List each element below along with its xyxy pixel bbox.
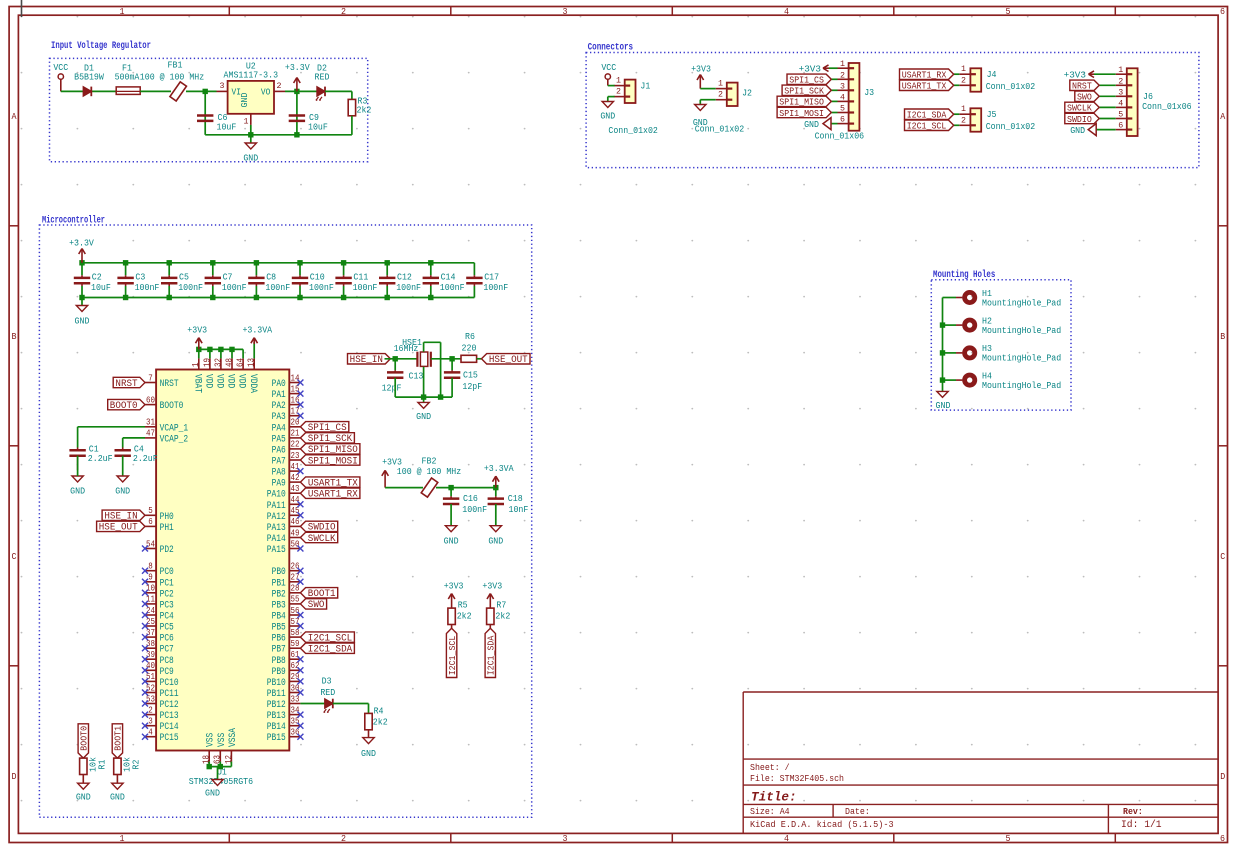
svg-text:J3: J3 xyxy=(864,87,874,98)
svg-text:7: 7 xyxy=(148,372,153,383)
svg-text:Connectors: Connectors xyxy=(588,42,634,53)
svg-text:PB9: PB9 xyxy=(272,667,286,678)
svg-text:13: 13 xyxy=(246,358,257,367)
svg-text:2: 2 xyxy=(616,87,621,97)
svg-text:56: 56 xyxy=(291,605,300,616)
svg-text:R7: R7 xyxy=(496,600,506,611)
svg-text:GND: GND xyxy=(804,119,819,130)
svg-text:R5: R5 xyxy=(458,600,468,611)
svg-text:PA9: PA9 xyxy=(272,479,286,490)
svg-text:BOOT0: BOOT0 xyxy=(160,401,184,412)
svg-text:PC7: PC7 xyxy=(160,645,174,656)
svg-text:B: B xyxy=(12,332,18,342)
svg-text:31: 31 xyxy=(146,417,155,428)
svg-text:SPI1_CS: SPI1_CS xyxy=(789,75,824,86)
svg-text:1: 1 xyxy=(120,7,125,17)
svg-text:C11: C11 xyxy=(353,271,368,282)
svg-text:PC8: PC8 xyxy=(160,656,174,667)
svg-text:5: 5 xyxy=(840,104,845,114)
svg-text:RED: RED xyxy=(315,72,330,83)
svg-text:3: 3 xyxy=(563,7,568,17)
svg-text:MountingHole_Pad: MountingHole_Pad xyxy=(982,325,1061,336)
svg-text:500mA: 500mA xyxy=(115,72,140,83)
svg-text:C: C xyxy=(1220,552,1226,562)
svg-text:PC13: PC13 xyxy=(160,711,179,722)
svg-text:PA1: PA1 xyxy=(272,390,286,401)
svg-text:J2: J2 xyxy=(742,87,752,98)
svg-text:Id: 1/1: Id: 1/1 xyxy=(1121,819,1162,831)
svg-text:File: STM32F405.sch: File: STM32F405.sch xyxy=(750,773,844,784)
svg-text:2: 2 xyxy=(1118,76,1123,86)
svg-text:PC11: PC11 xyxy=(160,689,179,700)
svg-text:Sheet: /: Sheet: / xyxy=(750,762,790,773)
svg-text:3: 3 xyxy=(1118,87,1123,97)
svg-text:C: C xyxy=(12,552,18,562)
svg-text:VDD: VDD xyxy=(214,374,225,388)
svg-text:+3V3: +3V3 xyxy=(799,63,821,74)
svg-text:6: 6 xyxy=(148,516,153,527)
svg-text:MountingHole_Pad: MountingHole_Pad xyxy=(982,380,1061,391)
svg-text:100nF: 100nF xyxy=(353,282,378,293)
svg-text:VBAT: VBAT xyxy=(191,374,202,393)
svg-text:41: 41 xyxy=(291,461,300,472)
svg-text:GND: GND xyxy=(205,787,220,798)
svg-text:GND: GND xyxy=(936,400,951,411)
svg-text:Conn_01x02: Conn_01x02 xyxy=(986,81,1035,92)
svg-text:HSE_OUT: HSE_OUT xyxy=(99,523,138,534)
svg-text:PB6: PB6 xyxy=(272,634,286,645)
svg-text:2: 2 xyxy=(341,834,346,844)
svg-text:VSS: VSS xyxy=(206,733,217,747)
svg-text:GND: GND xyxy=(488,535,503,546)
svg-text:USART1_RX: USART1_RX xyxy=(308,490,358,501)
svg-text:A: A xyxy=(12,112,18,122)
svg-text:PC15: PC15 xyxy=(160,733,179,744)
svg-text:PA6: PA6 xyxy=(272,445,286,456)
svg-text:PC3: PC3 xyxy=(160,600,174,611)
svg-text:PD2: PD2 xyxy=(160,545,174,556)
svg-text:Input Voltage Regulator: Input Voltage Regulator xyxy=(51,40,151,52)
svg-text:2: 2 xyxy=(961,115,966,125)
svg-text:2k2: 2k2 xyxy=(373,717,388,728)
svg-text:34: 34 xyxy=(291,704,300,715)
svg-text:1: 1 xyxy=(718,79,723,89)
svg-text:VCAP_1: VCAP_1 xyxy=(160,423,189,434)
svg-text:PH0: PH0 xyxy=(160,512,174,523)
svg-text:PC0: PC0 xyxy=(160,567,174,578)
svg-text:VCAP_2: VCAP_2 xyxy=(160,434,189,445)
svg-text:C13: C13 xyxy=(409,371,424,382)
svg-text:+3.3VA: +3.3VA xyxy=(242,324,272,335)
svg-text:Size: A4: Size: A4 xyxy=(750,806,790,817)
svg-text:R2: R2 xyxy=(131,760,142,770)
svg-text:Rev:: Rev: xyxy=(1123,806,1143,817)
svg-text:NRST: NRST xyxy=(115,379,137,390)
svg-text:5: 5 xyxy=(1118,110,1123,120)
svg-text:D: D xyxy=(12,772,17,782)
svg-text:PA7: PA7 xyxy=(272,457,286,468)
svg-text:R1: R1 xyxy=(97,759,108,769)
svg-text:C16: C16 xyxy=(463,493,478,504)
svg-text:GND: GND xyxy=(361,748,376,759)
svg-text:220: 220 xyxy=(462,342,477,353)
svg-text:1: 1 xyxy=(244,117,249,127)
svg-text:PB7: PB7 xyxy=(272,645,286,656)
svg-text:PA12: PA12 xyxy=(267,512,286,523)
svg-text:MountingHole_Pad: MountingHole_Pad xyxy=(982,353,1061,364)
svg-text:44: 44 xyxy=(291,494,300,505)
svg-text:BOOT0: BOOT0 xyxy=(110,401,138,412)
svg-text:PA13: PA13 xyxy=(267,523,286,534)
svg-text:SWCLK: SWCLK xyxy=(1067,103,1092,114)
svg-text:J1: J1 xyxy=(640,81,650,92)
svg-text:BOOT1: BOOT1 xyxy=(113,725,124,750)
svg-text:SWO: SWO xyxy=(308,600,325,611)
svg-text:50: 50 xyxy=(291,538,300,549)
svg-text:47: 47 xyxy=(146,428,155,439)
svg-text:+3.3V: +3.3V xyxy=(285,62,310,73)
svg-text:2: 2 xyxy=(961,75,966,85)
svg-text:GND: GND xyxy=(115,485,130,496)
svg-text:GND: GND xyxy=(75,316,90,327)
svg-text:C7: C7 xyxy=(223,271,233,282)
svg-text:1: 1 xyxy=(1118,65,1123,75)
svg-text:+3V3: +3V3 xyxy=(444,580,464,591)
svg-text:+3.3VA: +3.3VA xyxy=(484,463,514,474)
svg-text:10uF: 10uF xyxy=(308,121,328,132)
svg-text:100nF: 100nF xyxy=(440,282,465,293)
svg-text:PB15: PB15 xyxy=(267,733,286,744)
svg-text:VCC: VCC xyxy=(53,62,68,73)
svg-text:PB2: PB2 xyxy=(272,589,286,600)
svg-text:KiCad E.D.A. kicad (5.1.5)-3: KiCad E.D.A. kicad (5.1.5)-3 xyxy=(750,819,894,830)
svg-text:PA11: PA11 xyxy=(267,501,286,512)
svg-text:VSSA: VSSA xyxy=(228,728,239,747)
svg-text:2k2: 2k2 xyxy=(495,611,510,622)
svg-text:PC6: PC6 xyxy=(160,634,174,645)
svg-text:SPI1_SCK: SPI1_SCK xyxy=(784,86,824,97)
svg-text:1: 1 xyxy=(190,362,201,367)
svg-text:GND: GND xyxy=(243,153,258,164)
svg-text:+3V3: +3V3 xyxy=(187,324,207,335)
svg-text:SPI1_MOSI: SPI1_MOSI xyxy=(779,108,824,119)
svg-text:I2C1_SCL: I2C1_SCL xyxy=(447,636,458,676)
svg-text:23: 23 xyxy=(291,450,300,461)
svg-text:PB8: PB8 xyxy=(272,656,286,667)
svg-text:Title:: Title: xyxy=(751,790,797,804)
svg-text:PC12: PC12 xyxy=(160,700,179,711)
svg-text:55: 55 xyxy=(291,594,300,605)
svg-text:PH1: PH1 xyxy=(160,523,174,534)
svg-text:8: 8 xyxy=(148,561,153,572)
svg-text:100nF: 100nF xyxy=(309,282,334,293)
svg-text:NRST: NRST xyxy=(160,379,179,390)
svg-text:PC5: PC5 xyxy=(160,623,174,634)
svg-text:1: 1 xyxy=(120,834,125,844)
svg-text:6: 6 xyxy=(1220,834,1225,844)
svg-text:I2C1_SDA: I2C1_SDA xyxy=(486,635,497,675)
svg-text:VSS: VSS xyxy=(217,733,228,747)
svg-text:VDD: VDD xyxy=(203,374,214,388)
svg-text:J4: J4 xyxy=(987,69,997,80)
svg-text:100nF: 100nF xyxy=(265,282,290,293)
svg-text:PA10: PA10 xyxy=(267,490,286,501)
svg-text:1: 1 xyxy=(840,59,845,69)
svg-text:Conn_01x02: Conn_01x02 xyxy=(695,124,745,135)
svg-text:PA3: PA3 xyxy=(272,412,286,423)
svg-text:PB10: PB10 xyxy=(267,678,286,689)
svg-text:VCC: VCC xyxy=(601,62,616,73)
svg-text:PA0: PA0 xyxy=(272,379,286,390)
svg-text:64: 64 xyxy=(235,358,246,367)
svg-text:USART1_TX: USART1_TX xyxy=(902,81,947,92)
svg-text:1: 1 xyxy=(961,64,966,74)
svg-text:1: 1 xyxy=(616,76,621,86)
svg-text:PC1: PC1 xyxy=(160,578,174,589)
svg-text:GND: GND xyxy=(600,111,615,122)
svg-text:GND: GND xyxy=(76,791,91,802)
svg-text:48: 48 xyxy=(223,358,234,367)
svg-text:4: 4 xyxy=(148,727,153,738)
svg-text:PA8: PA8 xyxy=(272,468,286,479)
svg-text:PA5: PA5 xyxy=(272,434,286,445)
svg-text:PB0: PB0 xyxy=(272,567,286,578)
svg-text:2: 2 xyxy=(840,70,845,80)
svg-text:3: 3 xyxy=(563,834,568,844)
svg-text:PA2: PA2 xyxy=(272,401,286,412)
svg-text:2k2: 2k2 xyxy=(357,104,372,115)
svg-text:FB1: FB1 xyxy=(168,59,183,70)
svg-text:100nF: 100nF xyxy=(222,282,247,293)
svg-text:16MHz: 16MHz xyxy=(394,343,419,354)
svg-text:4: 4 xyxy=(784,834,789,844)
svg-text:100 @ 100 MHz: 100 @ 100 MHz xyxy=(140,72,204,83)
svg-text:4: 4 xyxy=(784,7,789,17)
svg-text:SWO: SWO xyxy=(1077,92,1092,103)
svg-text:FB2: FB2 xyxy=(422,455,437,466)
svg-text:PB14: PB14 xyxy=(267,722,286,733)
svg-text:Conn_01x06: Conn_01x06 xyxy=(815,131,865,142)
svg-text:I2C1_SDA: I2C1_SDA xyxy=(907,110,947,121)
svg-text:100nF: 100nF xyxy=(462,504,487,515)
svg-text:PB5: PB5 xyxy=(272,623,286,634)
svg-text:C8: C8 xyxy=(266,271,276,282)
svg-text:2: 2 xyxy=(148,704,153,715)
svg-text:3: 3 xyxy=(220,81,225,91)
svg-text:BOOT0: BOOT0 xyxy=(79,726,90,751)
svg-text:2: 2 xyxy=(718,90,723,100)
svg-text:Date:: Date: xyxy=(845,806,870,817)
svg-text:6: 6 xyxy=(1118,121,1123,131)
svg-text:VDD: VDD xyxy=(225,374,236,388)
svg-text:I2C1_SDA: I2C1_SDA xyxy=(308,645,352,656)
svg-text:PB13: PB13 xyxy=(267,711,286,722)
svg-text:21: 21 xyxy=(291,428,300,439)
svg-text:B: B xyxy=(1220,332,1226,342)
svg-text:3: 3 xyxy=(840,81,845,91)
svg-text:10nF: 10nF xyxy=(509,504,529,515)
svg-text:HSE_IN: HSE_IN xyxy=(350,355,383,366)
svg-text:100nF: 100nF xyxy=(178,282,203,293)
svg-text:3: 3 xyxy=(148,716,153,727)
svg-text:59: 59 xyxy=(291,638,300,649)
svg-text:100nF: 100nF xyxy=(135,282,160,293)
svg-text:PB12: PB12 xyxy=(267,700,286,711)
svg-text:14: 14 xyxy=(291,372,300,383)
svg-text:32: 32 xyxy=(212,358,223,367)
svg-text:43: 43 xyxy=(291,483,300,494)
svg-text:5: 5 xyxy=(148,505,153,516)
svg-text:10uF: 10uF xyxy=(217,121,237,132)
svg-text:PB1: PB1 xyxy=(272,578,286,589)
svg-text:C5: C5 xyxy=(179,271,189,282)
svg-text:C10: C10 xyxy=(310,271,325,282)
svg-text:PB4: PB4 xyxy=(272,612,286,623)
svg-text:100 @ 100 MHz: 100 @ 100 MHz xyxy=(397,466,461,477)
svg-text:C12: C12 xyxy=(397,271,412,282)
svg-text:1: 1 xyxy=(961,104,966,114)
svg-text:PC4: PC4 xyxy=(160,612,174,623)
svg-text:Conn_01x02: Conn_01x02 xyxy=(986,121,1035,132)
svg-text:D: D xyxy=(1220,772,1225,782)
svg-text:GND: GND xyxy=(1070,125,1085,136)
svg-text:GND: GND xyxy=(239,92,250,107)
svg-text:5: 5 xyxy=(1006,834,1011,844)
svg-text:2k2: 2k2 xyxy=(457,611,472,622)
svg-text:22: 22 xyxy=(291,439,300,450)
svg-text:49: 49 xyxy=(291,527,300,538)
svg-text:RED: RED xyxy=(320,687,335,698)
svg-text:PA4: PA4 xyxy=(272,423,286,434)
svg-text:GND: GND xyxy=(444,535,459,546)
svg-text:100nF: 100nF xyxy=(483,282,508,293)
svg-text:VDDA: VDDA xyxy=(247,374,258,393)
svg-text:Conn_01x06: Conn_01x06 xyxy=(1142,101,1192,112)
svg-text:J5: J5 xyxy=(987,109,997,120)
svg-text:SPI1_MOSI: SPI1_MOSI xyxy=(308,456,358,467)
svg-text:C14: C14 xyxy=(441,271,456,282)
svg-text:6: 6 xyxy=(840,115,845,125)
svg-text:GND: GND xyxy=(70,485,85,496)
svg-text:10uF: 10uF xyxy=(91,282,111,293)
svg-text:12pF: 12pF xyxy=(382,382,402,393)
svg-text:2: 2 xyxy=(277,81,282,91)
svg-text:SPI1_MISO: SPI1_MISO xyxy=(779,97,824,108)
svg-text:VO: VO xyxy=(261,87,271,98)
svg-text:PC14: PC14 xyxy=(160,722,179,733)
svg-text:PC10: PC10 xyxy=(160,678,179,689)
svg-text:NRST: NRST xyxy=(1072,81,1092,92)
svg-text:C15: C15 xyxy=(463,369,478,380)
svg-text:I2C1_SCL: I2C1_SCL xyxy=(907,121,947,132)
svg-text:+3V3: +3V3 xyxy=(1064,69,1086,80)
svg-text:SWCLK: SWCLK xyxy=(308,534,336,545)
svg-text:60: 60 xyxy=(146,394,155,405)
svg-text:4: 4 xyxy=(1118,98,1123,108)
svg-text:PA15: PA15 xyxy=(267,545,286,556)
svg-text:PC2: PC2 xyxy=(160,589,174,600)
svg-text:AMS1117-3.3: AMS1117-3.3 xyxy=(224,70,279,81)
svg-text:6: 6 xyxy=(1220,7,1225,17)
svg-text:C2: C2 xyxy=(92,271,102,282)
svg-text:+3V3: +3V3 xyxy=(482,580,502,591)
svg-text:R6: R6 xyxy=(465,331,475,342)
svg-text:26: 26 xyxy=(291,561,300,572)
svg-text:GND: GND xyxy=(416,411,431,422)
svg-text:12pF: 12pF xyxy=(462,381,482,392)
svg-text:+3V3: +3V3 xyxy=(691,64,711,75)
svg-text:HSE_OUT: HSE_OUT xyxy=(489,355,528,366)
svg-text:R4: R4 xyxy=(374,706,384,717)
svg-text:54: 54 xyxy=(146,538,155,549)
svg-text:4: 4 xyxy=(840,92,845,102)
svg-text:Conn_01x02: Conn_01x02 xyxy=(608,125,658,136)
svg-text:2.2uF: 2.2uF xyxy=(133,453,158,464)
svg-text:A: A xyxy=(1220,112,1226,122)
svg-text:C18: C18 xyxy=(508,493,523,504)
svg-text:2: 2 xyxy=(341,7,346,17)
svg-text:2.2uF: 2.2uF xyxy=(88,453,113,464)
svg-text:B5B19W: B5B19W xyxy=(74,72,104,83)
svg-text:GND: GND xyxy=(110,791,125,802)
svg-text:VDD: VDD xyxy=(236,374,247,388)
svg-text:C3: C3 xyxy=(135,271,145,282)
svg-text:PA14: PA14 xyxy=(267,534,286,545)
svg-text:5: 5 xyxy=(1006,7,1011,17)
svg-text:PC9: PC9 xyxy=(160,667,174,678)
svg-text:100nF: 100nF xyxy=(396,282,421,293)
svg-text:+3.3V: +3.3V xyxy=(69,237,94,248)
svg-text:C17: C17 xyxy=(484,271,499,282)
svg-text:USART1_RX: USART1_RX xyxy=(902,70,947,81)
svg-text:SWDIO: SWDIO xyxy=(1067,114,1092,125)
svg-text:61: 61 xyxy=(291,649,300,660)
svg-text:D3: D3 xyxy=(322,675,332,686)
svg-text:PB11: PB11 xyxy=(267,689,286,700)
svg-text:PB3: PB3 xyxy=(272,600,286,611)
svg-text:9: 9 xyxy=(148,572,153,583)
svg-text:19: 19 xyxy=(201,358,212,367)
svg-text:MountingHole_Pad: MountingHole_Pad xyxy=(982,297,1061,308)
